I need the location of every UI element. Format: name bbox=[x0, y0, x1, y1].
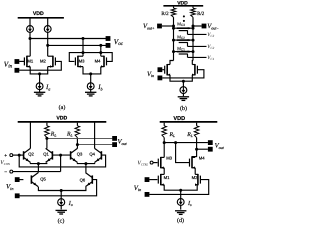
label RL1 (d) bbox=[169, 132, 176, 138]
wire: M1 drain node to Voc+ terminal bbox=[30, 38, 108, 40]
svg-text:M4: M4 bbox=[95, 58, 101, 63]
terminal square Vout- (b) bbox=[193, 24, 206, 29]
wire: M1 drain vertical bbox=[29, 39, 31, 57]
node dots Vout wires bbox=[172, 25, 195, 28]
wire: tail to current source Ia bbox=[39, 74, 41, 83]
svg-text:Q3: Q3 bbox=[77, 152, 83, 157]
mos capacitor MC2 bbox=[174, 39, 207, 47]
wire: M3 source to M1 drain (d) bbox=[163, 168, 165, 175]
label VCTRL (d) bbox=[137, 160, 148, 166]
svg-text:M1: M1 bbox=[27, 58, 33, 63]
transistor Q2 bbox=[24, 148, 31, 162]
label M3 (d) bbox=[166, 156, 172, 161]
node dots MC3 bbox=[172, 27, 195, 30]
label Vin (a) bbox=[4, 60, 13, 69]
label Vout (d) bbox=[215, 143, 225, 150]
svg-text:(b): (b) bbox=[180, 105, 187, 112]
node dots MC1 bbox=[172, 50, 195, 53]
svg-text:Q1: Q1 bbox=[43, 152, 49, 157]
label Vin (b) bbox=[147, 71, 154, 78]
current source Is bbox=[177, 199, 184, 210]
caption (b) bbox=[180, 105, 187, 112]
svg-text:+: + bbox=[4, 153, 7, 159]
label M1 (d) bbox=[164, 175, 170, 180]
wire: M2 drain node to Voc- terminal bbox=[48, 44, 108, 46]
resistor R/2 left bbox=[171, 7, 176, 18]
label Voc bbox=[114, 38, 124, 47]
input terminal square Vin- (b) bbox=[158, 76, 163, 81]
svg-text:VDD: VDD bbox=[177, 0, 188, 6]
svg-text:Q5: Q5 bbox=[40, 176, 46, 181]
current source Ib bbox=[87, 83, 94, 92]
VDD rail (a) bbox=[18, 17, 64, 19]
label M3 bbox=[79, 58, 85, 63]
node dot RL1 (c) bbox=[45, 137, 48, 140]
label Vin (d) bbox=[134, 185, 141, 192]
wire: Q6 collector up bbox=[85, 164, 87, 173]
svg-text:R/2: R/2 bbox=[197, 11, 205, 17]
VDD label (c) bbox=[56, 115, 67, 121]
node dot wire2 / M4 drain tap bbox=[99, 44, 102, 47]
node dot Q1/Q2 emitters bbox=[37, 162, 40, 165]
ground symbol (a right) bbox=[85, 92, 96, 96]
label M1 bbox=[27, 58, 33, 63]
svg-text:VDD: VDD bbox=[56, 115, 67, 121]
label Vout- (b) bbox=[207, 23, 219, 30]
transistor Q5 bbox=[31, 173, 38, 187]
node dot + wire bbox=[18, 154, 21, 157]
svg-text:M3: M3 bbox=[166, 156, 172, 161]
svg-text:R/2: R/2 bbox=[161, 11, 169, 17]
input terminal square Vin- (d) bbox=[145, 192, 150, 197]
label Vout (c) bbox=[118, 139, 128, 146]
resistor RL1 (d) bbox=[162, 123, 167, 143]
node dot RL2 (c) bbox=[76, 143, 79, 146]
ground symbol (c) bbox=[56, 210, 67, 214]
node dot tail (d) bbox=[179, 189, 182, 192]
node dot tail (b) bbox=[182, 80, 185, 83]
wire: tail to current source Io bbox=[60, 191, 62, 199]
wire: source tail (d) bbox=[164, 185, 197, 190]
label MC3 bbox=[177, 21, 185, 27]
label Q6 bbox=[80, 178, 86, 183]
ground symbol (b) bbox=[178, 97, 189, 101]
label M4 (d) bbox=[199, 156, 205, 161]
label Vout+ (b) bbox=[143, 23, 155, 30]
label R/2 right bbox=[197, 11, 205, 17]
transistor M3 (d) bbox=[158, 157, 164, 169]
svg-text:VDD: VDD bbox=[173, 116, 185, 122]
current source load I2 (right) bbox=[44, 19, 51, 46]
current source load I1 (left) bbox=[27, 19, 34, 39]
wire: Vin- around to Q6 base bbox=[20, 180, 97, 196]
transistor Q4 bbox=[95, 148, 102, 162]
terminal square Vout+ (c) bbox=[112, 136, 117, 141]
input terminal square Vin+ (a) bbox=[15, 59, 20, 64]
resistor RL2 (c) bbox=[75, 123, 80, 149]
wire: RL2 node to Vout- (d) bbox=[197, 148, 208, 150]
svg-text:M2: M2 bbox=[40, 58, 46, 63]
transistor Q3 bbox=[71, 148, 78, 162]
node dot Q3/Q4 emitters bbox=[84, 162, 87, 165]
ground symbol (a left) bbox=[34, 92, 45, 96]
label Io bbox=[68, 200, 73, 207]
label Ia bbox=[45, 84, 50, 91]
wire: RL2 node to Vout- (c) bbox=[77, 144, 112, 146]
wire: RL1 node to Vout+ (d) bbox=[164, 142, 208, 144]
resistor R/2 right bbox=[191, 7, 196, 18]
input terminal square Vin+ (c) bbox=[15, 177, 24, 182]
wire: RL1 node to Vout+ (c) bbox=[47, 137, 112, 139]
wire: Vin- around to right gate (b) bbox=[162, 70, 204, 78]
wire: M2 drain vertical bbox=[47, 45, 49, 56]
transistor M1 (d) bbox=[158, 174, 164, 186]
wire: Vin- around to M2 gate (d) bbox=[149, 180, 208, 195]
node dots MC2 bbox=[172, 39, 195, 42]
wire: tail to current source (b) bbox=[182, 81, 184, 87]
label M2 bbox=[40, 58, 46, 63]
input terminal square Vin- (c) bbox=[15, 193, 20, 198]
circuit (b): differential pair with R/2 loads and MOS capacitor bank MC1-MC3 bbox=[0, 0, 1, 1]
wire: M4 gate to Vout+ node (d) bbox=[176, 143, 190, 163]
current source Io bbox=[58, 199, 65, 210]
mos capacitor MC3 bbox=[174, 27, 207, 34]
label MC2 bbox=[177, 34, 185, 40]
svg-text:M4: M4 bbox=[199, 156, 205, 161]
label Q5 bbox=[40, 176, 46, 181]
node dot RL1 (d) bbox=[163, 141, 166, 144]
label Q4 bbox=[89, 152, 95, 157]
wire: M4 source to M2 drain (d) bbox=[194, 168, 196, 175]
terminal square Vout- (c) bbox=[112, 142, 117, 147]
transistor M4 bbox=[101, 56, 107, 68]
node dot tail a-left bbox=[38, 72, 41, 75]
transistor M3 bbox=[75, 56, 83, 68]
node dot wire1 / M3 drain tap bbox=[82, 37, 85, 40]
wire: Q2 collector to VDD bbox=[29, 122, 31, 148]
svg-text:M1: M1 bbox=[164, 175, 170, 180]
wire: Q5/Q6 emitters join tail (c) bbox=[38, 187, 86, 191]
label Vin (c) bbox=[6, 184, 13, 191]
node dot gate line at M3 drain bbox=[82, 51, 85, 54]
input terminal square Vin+ (b) bbox=[158, 67, 165, 72]
svg-text:(c): (c) bbox=[58, 217, 65, 224]
wire: M3 drain vertical to wire1 bbox=[82, 39, 84, 57]
label Q1 bbox=[43, 152, 49, 157]
input + terminal (c) bbox=[4, 153, 23, 159]
wire: left column jog to drain (b) bbox=[170, 61, 174, 65]
label Ib bbox=[97, 84, 102, 91]
wire: Vin- around to M2 gate bbox=[19, 61, 61, 70]
wire: M3/M4 source tail bbox=[83, 67, 101, 74]
svg-text:MC2: MC2 bbox=[177, 34, 185, 40]
label M2 (d) bbox=[192, 175, 198, 180]
label RL2 (c) bbox=[66, 132, 73, 138]
terminal square Voc upper bbox=[106, 36, 111, 41]
VDD rail (c) bbox=[18, 121, 107, 123]
wire: M3 drain to RL1 (d) bbox=[163, 143, 165, 158]
node dot RL2 (d) bbox=[195, 148, 198, 151]
svg-text:−: − bbox=[4, 170, 7, 176]
ellipsis dots (more stages) bbox=[183, 15, 185, 22]
caption (c) bbox=[58, 217, 65, 224]
wire: M4 drain vertical to wire2 bbox=[100, 45, 102, 56]
node dot M4 gate tap (d) bbox=[174, 141, 177, 144]
circuit (c): BJT current-steering VGA Q1-Q6 with RL loads bbox=[0, 0, 1, 1]
svg-text:MC1: MC1 bbox=[177, 46, 185, 52]
svg-text:(d): (d) bbox=[177, 217, 184, 224]
wire: - up to Q1/Q3 bases bbox=[52, 155, 70, 172]
transistor input pair left (b) bbox=[165, 64, 170, 76]
label Q3 bbox=[77, 152, 83, 157]
node dot - wire bbox=[59, 154, 62, 157]
label VC3 bbox=[207, 32, 214, 38]
resistor RL1 (c) bbox=[45, 123, 50, 149]
circuit (a): differential pair M1/M2 with current-source loads and cross-coupled pair M3/M4 bbox=[0, 0, 1, 1]
node dot at I2/M2 drain bbox=[46, 44, 49, 47]
label VCON (c) bbox=[0, 160, 11, 166]
svg-text:(a): (a) bbox=[59, 104, 66, 111]
current source Ia bbox=[36, 83, 43, 92]
label Q2 bbox=[28, 152, 34, 157]
terminal square Vout- (d) bbox=[208, 147, 213, 152]
label Is bbox=[187, 200, 192, 207]
terminal square Vout+ (d) bbox=[208, 140, 213, 145]
label R/2 left bbox=[161, 11, 169, 17]
transistor M4 (d) bbox=[190, 157, 196, 169]
wire: + crossover to Q4 base bbox=[19, 155, 105, 167]
svg-text:Q6: Q6 bbox=[80, 178, 86, 183]
svg-text:VDD: VDD bbox=[33, 11, 44, 17]
wire: tail to current source Ib bbox=[90, 74, 92, 83]
caption (d) bbox=[177, 217, 184, 224]
resistor RL2 (d) bbox=[194, 123, 199, 150]
wire: source tail (b) bbox=[170, 75, 192, 81]
transistor input pair right (b) bbox=[192, 64, 197, 76]
current source (b) bbox=[180, 87, 187, 97]
svg-text:Q4: Q4 bbox=[89, 152, 95, 157]
transistor M2 (d) bbox=[195, 174, 200, 186]
left column wire (b) bbox=[173, 17, 175, 60]
label RL2 (d) bbox=[186, 132, 193, 138]
wire: Vin+ to M1 gate bbox=[19, 60, 24, 62]
caption (a) bbox=[59, 104, 66, 111]
VDD label (b) bbox=[177, 0, 188, 6]
wire: Q1/Q2 emitters join bbox=[30, 163, 46, 164]
svg-text:M3: M3 bbox=[79, 58, 85, 63]
node dot tail (c) bbox=[60, 189, 63, 192]
svg-text:Q2: Q2 bbox=[28, 152, 34, 157]
VDD rail (b) bbox=[163, 5, 203, 7]
wire: M1/M2 source tail bbox=[30, 67, 48, 74]
input terminal square Vin+ (d) bbox=[145, 177, 158, 182]
wire: right column jog to drain (b) bbox=[191, 61, 194, 65]
terminal square Voc lower bbox=[106, 43, 111, 48]
label VC2 bbox=[207, 44, 214, 50]
input - terminal (c) bbox=[4, 170, 60, 176]
wire: Q5 collector up bbox=[37, 164, 39, 173]
label MC1 bbox=[177, 46, 185, 52]
transistor M1 bbox=[24, 56, 30, 68]
wire: cross-coupled gate line M3/M4 bbox=[69, 53, 112, 62]
svg-text:MC3: MC3 bbox=[177, 21, 185, 27]
VDD label (a) bbox=[33, 11, 44, 17]
mos capacitor MC1 bbox=[174, 50, 207, 57]
circuit (d): MOS cascode VGA M1-M4 with RL loads bbox=[0, 0, 1, 1]
node dot tail a-right bbox=[89, 72, 92, 75]
svg-text:M2: M2 bbox=[192, 175, 198, 180]
VDD rail (d) bbox=[160, 121, 218, 123]
right column wire (b) bbox=[192, 17, 194, 60]
wire: tail to current source Is bbox=[180, 190, 182, 198]
wire: Q4 collector to VDD bbox=[94, 122, 96, 148]
wire: M4 drain to RL2 (d) bbox=[192, 149, 197, 157]
node dot at I1/M1 drain bbox=[29, 37, 32, 40]
transistor M2 bbox=[48, 56, 56, 68]
label RL1 (c) bbox=[50, 132, 57, 138]
VDD label (d) bbox=[173, 116, 185, 122]
terminal square Vout+ (b) bbox=[157, 24, 173, 29]
label M4 bbox=[95, 58, 101, 63]
node dot gate line at M4 drain bbox=[99, 51, 102, 54]
terminal Vctrl (d) bbox=[150, 161, 157, 164]
wire: Q3/Q4 emitters join bbox=[77, 163, 94, 164]
label VC1 bbox=[207, 55, 214, 61]
ground symbol (d) bbox=[175, 211, 186, 215]
transistor Q1 bbox=[46, 148, 53, 162]
input terminal square Vin- (a) bbox=[15, 68, 20, 73]
transistor Q6 bbox=[86, 173, 93, 187]
